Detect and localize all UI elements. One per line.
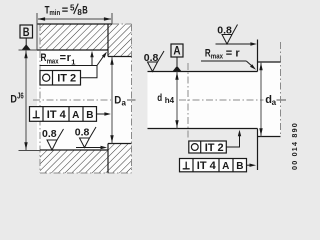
svg-text:IT 2: IT 2	[57, 73, 76, 85]
svg-text:D: D	[10, 94, 17, 106]
svg-text:r: r	[235, 47, 240, 59]
svg-text:A: A	[173, 46, 180, 58]
svg-text:A: A	[72, 110, 79, 121]
svg-text:5: 5	[70, 4, 75, 13]
svg-text:0.8: 0.8	[75, 127, 90, 139]
svg-text:=: =	[62, 4, 68, 16]
svg-text:A: A	[222, 161, 229, 172]
svg-text:B: B	[86, 110, 93, 121]
svg-text:R: R	[41, 52, 47, 64]
svg-text:=: =	[60, 52, 66, 64]
svg-text:00 014 890: 00 014 890	[290, 122, 299, 170]
svg-text:h4: h4	[165, 96, 175, 105]
svg-text:a: a	[272, 98, 277, 107]
svg-text:min: min	[49, 8, 60, 17]
svg-text:=: =	[226, 47, 232, 59]
svg-text:IT 4: IT 4	[197, 160, 217, 172]
svg-text:B: B	[82, 5, 88, 17]
svg-text:d: d	[157, 92, 162, 104]
svg-text:B: B	[236, 161, 243, 172]
svg-text:0.8: 0.8	[42, 128, 57, 140]
svg-text:max: max	[211, 51, 224, 60]
svg-text:a: a	[122, 98, 127, 107]
svg-text:max: max	[47, 56, 59, 65]
svg-text:IT 4: IT 4	[47, 109, 67, 121]
svg-text:J6: J6	[17, 91, 24, 100]
svg-text:B: B	[23, 27, 30, 39]
svg-text:IT 2: IT 2	[205, 142, 224, 154]
svg-text:D: D	[114, 95, 121, 107]
